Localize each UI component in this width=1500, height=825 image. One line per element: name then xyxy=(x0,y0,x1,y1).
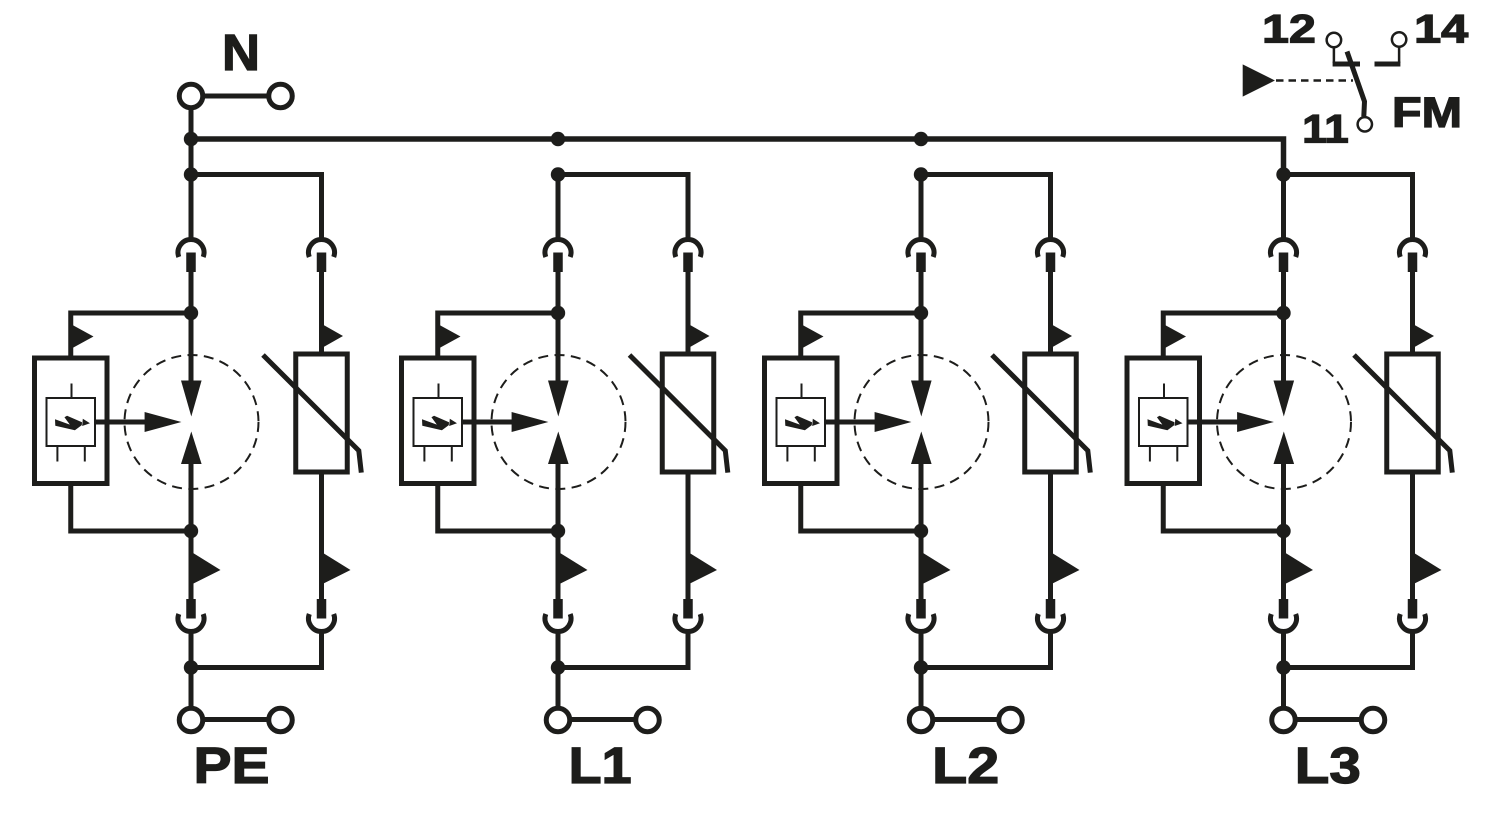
wire: block L3 spark-gap column lower segment xyxy=(1281,464,1286,600)
varistor diagonal stroke, block L2 xyxy=(992,355,1090,473)
lightning arrowhead inside trigger box, block PE xyxy=(82,419,90,426)
disconnection indicator arrow lower spark-gap column, block L3 xyxy=(1284,552,1313,585)
wire: block L1 trigger circuit bottom branch xyxy=(438,484,558,532)
wire: block L3 trigger circuit top branch xyxy=(1163,313,1283,358)
disconnection indicator arrow on trigger branch, block PE xyxy=(73,325,94,348)
spark gap lower electrode triangle, block L3 xyxy=(1274,432,1295,465)
terminal L2 right circle xyxy=(999,708,1023,732)
terminal L1 right circle xyxy=(636,708,660,732)
wire: block L2 varistor column lower segment xyxy=(1048,472,1053,600)
disconnection indicator arrow upper varistor column, block L1 xyxy=(689,324,710,347)
svg-text:12: 12 xyxy=(1262,7,1316,51)
contact 12 fixed contact bar xyxy=(1333,62,1360,67)
thermal disconnect device, top of varistor column, block L3 xyxy=(1400,239,1426,256)
junction dot: block PE trigger-circuit bottom tap xyxy=(184,524,198,538)
spark gap upper electrode triangle, block L3 xyxy=(1274,381,1295,417)
trigger firing line to spark gap, block L3 xyxy=(1188,420,1240,425)
disconnection indicator arrow on trigger branch, block L3 xyxy=(1165,325,1186,348)
spark gap upper electrode triangle, block PE xyxy=(181,381,202,417)
trigger inner box bottom pin 2, block L3 xyxy=(1176,446,1178,462)
disconnection indicator arrow lower spark-gap column, block L1 xyxy=(559,552,588,585)
junction dot: block L1 trigger-circuit top tap xyxy=(551,306,565,320)
junction dot: block L1 output node xyxy=(551,660,565,674)
thermal disconnect device, bottom of spark-gap column, block L1 xyxy=(545,614,571,631)
wire: block L3 varistor column lower segment xyxy=(1410,472,1415,600)
terminal PE left circle xyxy=(179,708,203,732)
trigger inner box bottom pin 2, block L1 xyxy=(451,446,453,462)
trigger/monitoring circuit box, block L2 xyxy=(765,358,838,484)
terminal L3 left circle xyxy=(1272,708,1296,732)
wire: block PE upper horizontal from spark-gap column over to varistor column top xyxy=(191,175,322,242)
terminal PE right circle xyxy=(269,708,293,732)
junction dot: block PE trigger-circuit top tap xyxy=(184,306,198,320)
contact 12 open circle xyxy=(1327,33,1342,48)
wire: link between L3 terminal circles xyxy=(1295,717,1362,722)
wire: block PE spark-gap column upper segment xyxy=(189,175,194,242)
varistor diagonal stroke, block L3 xyxy=(1354,355,1452,473)
spark gap lower electrode triangle, block L2 xyxy=(911,432,932,465)
dashed circle: triggered spark gap envelope, block L2 xyxy=(855,355,989,489)
junction dot: block L1 trigger-circuit bottom tap xyxy=(551,524,565,538)
varistor body, block L1 xyxy=(662,354,714,472)
junction dot: block L3 upper branch node xyxy=(1276,167,1290,181)
disconnection indicator arrow lower spark-gap column, block L2 xyxy=(922,552,951,585)
junction dot: block L3 trigger-circuit bottom tap xyxy=(1276,524,1290,538)
disconnection indicator arrow upper varistor column, block L3 xyxy=(1414,324,1435,347)
junction dot: block L2 upper branch node xyxy=(914,167,928,181)
wire: link between PE terminal circles xyxy=(203,717,270,722)
dashed actuation line to switch blade xyxy=(1276,79,1353,82)
wire: block L3 trigger circuit bottom branch xyxy=(1163,484,1283,532)
junction dot: block L3 output node xyxy=(1276,660,1290,674)
wire: block L3 spark-gap column to output node xyxy=(1281,632,1286,709)
disconnection indicator arrow lower varistor column, block L3 xyxy=(1413,552,1442,585)
contact 14 fixed contact bar xyxy=(1375,62,1401,67)
svg-text:L1: L1 xyxy=(569,737,632,794)
trigger inner box top pin, block L1 xyxy=(438,384,440,399)
trigger inner box top pin, block L2 xyxy=(801,384,803,399)
terminal N left circle xyxy=(179,84,203,108)
terminal L2 left circle xyxy=(909,708,933,732)
wire: block L3 upper horizontal from spark-gap column over to varistor column top xyxy=(1284,175,1413,242)
spark gap lower electrode triangle, block L1 xyxy=(548,432,569,465)
contact 14 open circle xyxy=(1392,32,1406,46)
wire: block L1 spark-gap column upper segment xyxy=(556,175,561,242)
terminal L3 right circle xyxy=(1361,708,1385,732)
wire: block PE spark-gap column between disconnect and gap xyxy=(189,272,194,381)
trigger electronics inner box, block L2 xyxy=(777,398,826,446)
thermal disconnect device, top of varistor column, block L1 xyxy=(675,239,701,256)
wire: block L1 spark-gap column lower segment xyxy=(556,464,561,600)
wire: link between L2 terminal circles xyxy=(933,717,1000,722)
disconnection indicator arrow lower varistor column, block PE xyxy=(322,552,351,585)
disconnection indicator arrow upper varistor column, block PE xyxy=(323,324,344,347)
trigger/monitoring circuit box, block PE xyxy=(35,358,108,484)
wire: block L3 spark-gap column between disconnect and gap xyxy=(1281,272,1286,381)
wire: block PE spark-gap column lower segment xyxy=(189,464,194,600)
junction dot: bus tap for L2 block xyxy=(914,132,928,146)
disconnection indicator arrow lower varistor column, block L2 xyxy=(1051,552,1080,585)
junction dot: block L3 trigger-circuit top tap xyxy=(1276,306,1290,320)
lightning arrowhead inside trigger box, block L3 xyxy=(1175,419,1183,426)
wire: N terminal vertical down to bus xyxy=(189,108,194,175)
trigger electronics inner box, block L1 xyxy=(414,398,463,446)
disconnection indicator arrow on trigger branch, block L2 xyxy=(803,325,824,348)
trigger firing line to spark gap, block L2 xyxy=(825,420,877,425)
trigger inner box top pin, block L3 xyxy=(1163,384,1165,399)
wire: block L3 varistor column to output node xyxy=(1284,632,1413,668)
wire: block L3 spark-gap column upper segment xyxy=(1281,175,1286,242)
actuation arrow of FM contact xyxy=(1243,64,1275,96)
wire: block PE varistor column lower segment xyxy=(319,472,324,600)
wire: block L3 varistor column above varistor xyxy=(1410,272,1415,354)
thermal disconnect device, top of spark-gap column, block L2 xyxy=(908,239,934,256)
junction dot: block L1 upper branch node xyxy=(551,167,565,181)
wire: block L2 spark-gap column lower segment xyxy=(919,464,924,600)
wire: link between N terminal circles xyxy=(203,94,270,99)
thermal disconnect device, top of varistor column, block L2 xyxy=(1038,239,1064,256)
trigger inner box bottom pin 1, block PE xyxy=(56,446,58,462)
trigger inner box bottom pin 2, block PE xyxy=(84,446,86,462)
wire: block L1 varistor column lower segment xyxy=(686,472,691,600)
thermal disconnect device, bottom of spark-gap column, block PE xyxy=(178,614,204,631)
thermal disconnect device, bottom of varistor column, block L3 xyxy=(1400,614,1426,631)
thermal disconnect device, bottom of varistor column, block L1 xyxy=(675,614,701,631)
trigger firing arrowhead, block L2 xyxy=(875,412,912,432)
trigger electronics inner box, block L3 xyxy=(1139,398,1188,446)
contact 11 open circle xyxy=(1358,117,1372,131)
junction dot: block L2 trigger-circuit top tap xyxy=(914,306,928,320)
disconnection indicator arrow lower spark-gap column, block PE xyxy=(192,552,221,585)
surge (lightning flash) symbol inside trigger box, block PE xyxy=(55,416,82,431)
surge (lightning flash) symbol inside trigger box, block L2 xyxy=(785,416,812,431)
wire: thin drop from contact 14 circle xyxy=(1398,47,1401,63)
svg-text:14: 14 xyxy=(1414,7,1469,51)
wire: block L2 spark-gap column between disconnect and gap xyxy=(919,272,924,381)
svg-text:N: N xyxy=(222,24,260,81)
thermal disconnect device, bottom of varistor column, block L2 xyxy=(1038,614,1064,631)
wire: block L2 varistor column to output node xyxy=(921,632,1051,668)
wire: block L2 spark-gap column to output node xyxy=(919,632,924,709)
switch blade from 12 to 11 xyxy=(1347,52,1365,117)
wire: block L1 varistor column above varistor xyxy=(686,272,691,354)
svg-text:11: 11 xyxy=(1302,107,1349,151)
varistor body, block L3 xyxy=(1387,354,1439,472)
varistor body, block L2 xyxy=(1025,354,1077,472)
wire: block PE trigger circuit top branch xyxy=(71,313,191,358)
svg-text:PE: PE xyxy=(194,737,270,794)
spark gap upper electrode triangle, block L2 xyxy=(911,381,932,417)
trigger electronics inner box, block PE xyxy=(47,398,96,446)
thermal disconnect device, bottom of spark-gap column, block L2 xyxy=(908,614,934,631)
trigger inner box bottom pin 1, block L3 xyxy=(1149,446,1151,462)
thermal disconnect device, top of spark-gap column, block L3 xyxy=(1271,239,1297,256)
disconnection indicator arrow on trigger branch, block L1 xyxy=(440,325,461,348)
varistor diagonal stroke, block L1 xyxy=(630,355,728,473)
trigger/monitoring circuit box, block L1 xyxy=(402,358,475,484)
junction dot: bus tap for L1 block xyxy=(551,132,565,146)
wire: block L1 varistor column to output node xyxy=(558,632,688,668)
wire: block PE varistor column to output node xyxy=(191,632,322,668)
spark gap lower electrode triangle, block PE xyxy=(181,432,202,465)
spark gap upper electrode triangle, block L1 xyxy=(548,381,569,417)
thermal disconnect device, top of spark-gap column, block PE xyxy=(178,239,204,256)
trigger inner box bottom pin 1, block L1 xyxy=(423,446,425,462)
trigger firing arrowhead, block L3 xyxy=(1237,412,1274,432)
wire: block L2 trigger circuit bottom branch xyxy=(801,484,921,532)
surge (lightning flash) symbol inside trigger box, block L1 xyxy=(422,416,449,431)
svg-text:L2: L2 xyxy=(932,737,999,794)
junction dot: block PE output node xyxy=(184,660,198,674)
junction dot: block L2 trigger-circuit bottom tap xyxy=(914,524,928,538)
wire: block PE trigger circuit bottom branch xyxy=(71,484,191,532)
terminal L1 left circle xyxy=(546,708,570,732)
dashed circle: triggered spark gap envelope, block L1 xyxy=(492,355,626,489)
dashed circle: triggered spark gap envelope, block L3 xyxy=(1217,355,1351,489)
wire: thin drop from contact 12 circle xyxy=(1333,48,1336,63)
disconnection indicator arrow lower varistor column, block L1 xyxy=(688,552,717,585)
junction dot: block PE upper branch node xyxy=(184,167,198,181)
wire: block L2 upper horizontal from spark-gap column over to varistor column top xyxy=(921,175,1051,242)
svg-text:L3: L3 xyxy=(1295,737,1361,794)
trigger firing arrowhead, block PE xyxy=(145,412,182,432)
trigger inner box top pin, block PE xyxy=(71,384,73,399)
wire: block L2 spark-gap column upper segment xyxy=(919,175,924,242)
wire: block PE spark-gap column to output node xyxy=(189,632,194,709)
surge (lightning flash) symbol inside trigger box, block L3 xyxy=(1148,416,1175,431)
varistor diagonal stroke, block PE xyxy=(263,355,361,473)
wire: block L1 spark-gap column between disconnect and gap xyxy=(556,272,561,381)
trigger inner box bottom pin 2, block L2 xyxy=(814,446,816,462)
trigger firing line to spark gap, block L1 xyxy=(462,420,514,425)
thermal disconnect device, bottom of varistor column, block PE xyxy=(309,614,335,631)
wire: block L1 spark-gap column to output node xyxy=(556,632,561,709)
trigger inner box bottom pin 1, block L2 xyxy=(786,446,788,462)
wire: block PE varistor column above varistor xyxy=(319,272,324,354)
wire: link between L1 terminal circles xyxy=(570,717,637,722)
wire: block L1 trigger circuit top branch xyxy=(438,313,558,358)
trigger firing line to spark gap, block PE xyxy=(95,420,147,425)
lightning arrowhead inside trigger box, block L2 xyxy=(812,419,820,426)
svg-text:FM: FM xyxy=(1392,90,1462,137)
dashed circle: triggered spark gap envelope, block PE xyxy=(125,355,259,489)
thermal disconnect device, bottom of spark-gap column, block L3 xyxy=(1271,614,1297,631)
terminal N right circle xyxy=(269,84,293,108)
thermal disconnect device, top of spark-gap column, block L1 xyxy=(545,239,571,256)
wire: block L2 varistor column above varistor xyxy=(1048,272,1053,354)
varistor body, block PE xyxy=(296,354,348,472)
wire: block L2 trigger circuit top branch xyxy=(801,313,921,358)
trigger firing arrowhead, block L1 xyxy=(512,412,549,432)
wire: block L1 upper horizontal from spark-gap column over to varistor column top xyxy=(558,175,688,242)
junction dot: N column joins bus xyxy=(184,132,198,146)
lightning arrowhead inside trigger box, block L1 xyxy=(449,419,457,426)
junction dot: block L2 output node xyxy=(914,660,928,674)
trigger/monitoring circuit box, block L3 xyxy=(1127,358,1200,484)
wire: N bus across all blocks, corner down at L3 branch xyxy=(191,139,1284,175)
thermal disconnect device, top of varistor column, block PE xyxy=(309,239,335,256)
disconnection indicator arrow upper varistor column, block L2 xyxy=(1052,324,1073,347)
